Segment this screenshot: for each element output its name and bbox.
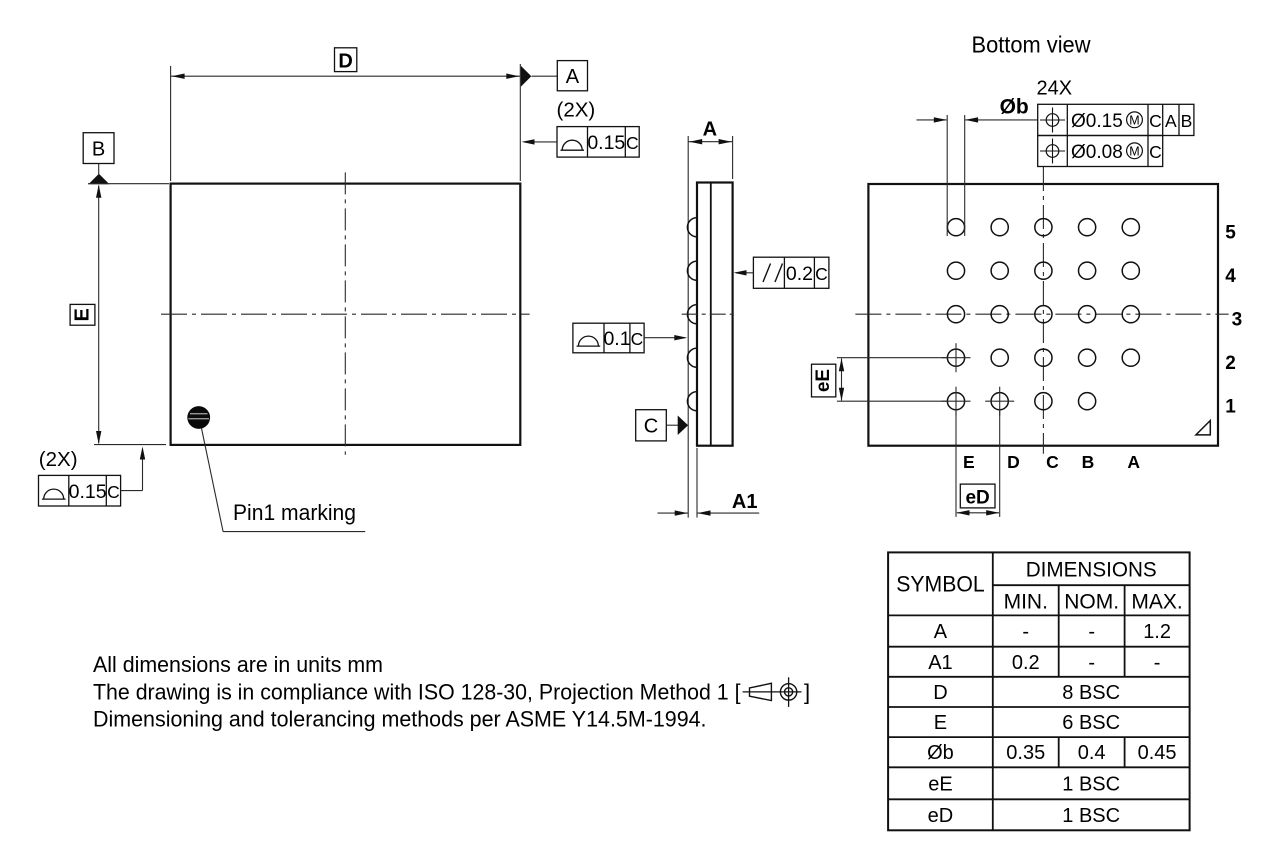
eD right extension line xyxy=(999,411,1001,517)
svg-text:C: C xyxy=(1149,111,1162,131)
svg-text:1.2: 1.2 xyxy=(1143,621,1171,643)
svg-text:NOM.: NOM. xyxy=(1064,590,1119,613)
front view package outline xyxy=(171,184,521,445)
svg-text:The drawing is in compliance w: The drawing is in compliance with ISO 12… xyxy=(93,679,741,704)
datum C triangle xyxy=(678,415,688,435)
svg-text:MAX.: MAX. xyxy=(1131,590,1182,613)
svg-text:A1: A1 xyxy=(732,491,758,513)
dimension D line xyxy=(171,74,521,79)
svg-text:E: E xyxy=(934,712,947,734)
eD dimension line xyxy=(957,510,1000,515)
svg-text:8 BSC: 8 BSC xyxy=(1062,682,1120,704)
svg-text:All dimensions are in units mm: All dimensions are in units mm xyxy=(93,652,383,677)
svg-text:A1: A1 xyxy=(928,652,952,674)
svg-text:0.15: 0.15 xyxy=(69,481,107,503)
Øb right extension line xyxy=(964,115,966,236)
dimension E line xyxy=(96,185,101,444)
svg-text:A: A xyxy=(934,621,948,643)
dimensions table grid xyxy=(888,552,1190,830)
svg-text:Bottom view: Bottom view xyxy=(972,32,1092,58)
svg-text:D: D xyxy=(338,50,352,72)
svg-text:E: E xyxy=(72,308,94,321)
profile frame 0.15 C (top) xyxy=(557,127,639,158)
svg-text:6 BSC: 6 BSC xyxy=(1062,712,1120,734)
svg-text:(2X): (2X) xyxy=(39,448,78,471)
dimension E bottom extension line xyxy=(94,444,166,446)
svg-text:0.2: 0.2 xyxy=(1012,652,1040,674)
svg-text:DIMENSIONS: DIMENSIONS xyxy=(1026,558,1157,582)
svg-text:B: B xyxy=(1181,111,1193,131)
svg-text:B: B xyxy=(92,139,105,161)
side view solder ball arcs xyxy=(687,218,697,411)
datum A leader xyxy=(532,75,558,77)
svg-text:C: C xyxy=(626,133,639,153)
datum B triangle xyxy=(88,174,109,185)
svg-text:D: D xyxy=(1007,452,1020,472)
svg-text:0.35: 0.35 xyxy=(1006,742,1045,764)
svg-text:3: 3 xyxy=(1232,310,1243,331)
svg-text:0.1: 0.1 xyxy=(603,328,630,350)
svg-text:M: M xyxy=(1129,144,1139,158)
svg-text:eE: eE xyxy=(813,369,834,392)
parallelism frame leader xyxy=(734,270,754,275)
eE lower extension line xyxy=(837,400,947,402)
datum A box xyxy=(557,61,587,91)
svg-text:Pin1 marking: Pin1 marking xyxy=(233,500,356,525)
svg-text:]: ] xyxy=(804,679,810,704)
profile frame 0.1 C xyxy=(573,323,644,353)
svg-text:Øb: Øb xyxy=(1000,96,1029,119)
parallelism frame 0.2 C xyxy=(753,257,829,288)
side view horizontal centerline xyxy=(682,313,737,315)
solder ball grid (24 balls) xyxy=(942,219,1140,416)
dimensions table text xyxy=(896,558,1183,827)
dimension E boxed label xyxy=(70,304,95,325)
svg-text:D: D xyxy=(933,682,947,704)
bottom view horizontal centerline (row 3) xyxy=(855,313,1228,315)
pin1 marking dot xyxy=(187,406,210,429)
svg-text:C: C xyxy=(644,416,658,438)
dimension A1 line xyxy=(658,510,760,515)
svg-text:SYMBOL: SYMBOL xyxy=(896,572,985,597)
svg-text:24X: 24X xyxy=(1037,78,1073,100)
svg-text:C: C xyxy=(815,264,828,284)
svg-text:-: - xyxy=(1154,652,1161,674)
datum B stem xyxy=(98,164,100,175)
datum A triangle xyxy=(521,66,532,87)
svg-text:A: A xyxy=(1165,111,1177,131)
svg-text:A: A xyxy=(566,66,580,88)
svg-text:C: C xyxy=(631,329,644,349)
profile frame 0.1 leader xyxy=(644,335,687,340)
pin1 leader line xyxy=(202,428,366,531)
dimension A1 left extension line continues (seating line) xyxy=(696,448,698,518)
bottom view package outline xyxy=(868,184,1218,446)
svg-text:eD: eD xyxy=(965,487,989,508)
svg-text:A: A xyxy=(1127,452,1140,472)
profile frame (top) leader arrow xyxy=(522,139,558,144)
svg-text:0.4: 0.4 xyxy=(1078,742,1106,764)
svg-text:C: C xyxy=(1149,142,1162,162)
side view substrate line xyxy=(710,183,712,446)
dimension D left extension line xyxy=(170,66,172,181)
svg-text:4: 4 xyxy=(1225,266,1236,287)
datum B box xyxy=(83,133,114,164)
dimension A line xyxy=(688,139,732,144)
svg-text:M: M xyxy=(1129,113,1139,127)
A1 corner triangle marker xyxy=(1196,421,1210,435)
datum B extension line xyxy=(88,183,169,185)
svg-text:B: B xyxy=(1082,452,1095,472)
svg-text:eE: eE xyxy=(928,773,952,795)
datum C box xyxy=(636,410,667,441)
eD boxed label xyxy=(960,484,995,508)
position frame 0.15 (top) xyxy=(1038,104,1194,135)
Øb dimension line xyxy=(917,117,1038,122)
svg-text:0.15: 0.15 xyxy=(587,132,625,154)
side view package body outline xyxy=(697,183,733,446)
svg-text:E: E xyxy=(963,452,975,472)
svg-text:1: 1 xyxy=(1225,397,1236,418)
svg-text:Ø0.08: Ø0.08 xyxy=(1071,142,1123,163)
svg-text:5: 5 xyxy=(1225,223,1236,244)
bottom view vertical centerline (column C) xyxy=(1042,167,1044,454)
eE upper extension line xyxy=(837,357,947,359)
svg-text:0.45: 0.45 xyxy=(1138,742,1177,764)
svg-text:-: - xyxy=(1088,652,1095,674)
svg-text:1 BSC: 1 BSC xyxy=(1062,805,1120,827)
svg-text:Øb: Øb xyxy=(927,742,954,764)
Øb left extension line xyxy=(946,115,948,236)
svg-text:2: 2 xyxy=(1225,353,1236,374)
position frame 0.08 (bottom) xyxy=(1038,136,1163,167)
svg-text:(2X): (2X) xyxy=(557,99,596,122)
eE boxed label xyxy=(812,364,836,397)
profile frame 0.15 C (bottom-left) xyxy=(39,475,121,506)
profile frame (bottom-left) leader xyxy=(121,447,146,491)
svg-text:Dimensioning and tolerancing m: Dimensioning and tolerancing methods per… xyxy=(93,706,707,731)
svg-text:eD: eD xyxy=(928,805,954,827)
eD left extension line xyxy=(955,411,957,517)
eE dimension line xyxy=(839,358,844,401)
side view seating plane line xyxy=(687,136,689,518)
front view vertical centerline xyxy=(344,172,346,454)
svg-text:C: C xyxy=(107,482,120,502)
dimension A right extension line xyxy=(732,136,734,179)
datum C leader xyxy=(666,424,679,426)
svg-text:1 BSC: 1 BSC xyxy=(1062,773,1120,795)
svg-text:MIN.: MIN. xyxy=(1004,590,1048,613)
front view horizontal centerline xyxy=(161,313,530,315)
svg-text:-: - xyxy=(1088,621,1095,643)
svg-text:0.2: 0.2 xyxy=(786,263,813,285)
svg-text:A: A xyxy=(703,119,717,141)
dimension D right extension line (datum A) xyxy=(519,64,521,181)
dimension D boxed label xyxy=(335,48,357,73)
svg-text:-: - xyxy=(1022,621,1029,643)
svg-text:C: C xyxy=(1046,452,1059,472)
svg-text:Ø0.15: Ø0.15 xyxy=(1071,111,1123,132)
projection method symbol xyxy=(743,677,802,707)
